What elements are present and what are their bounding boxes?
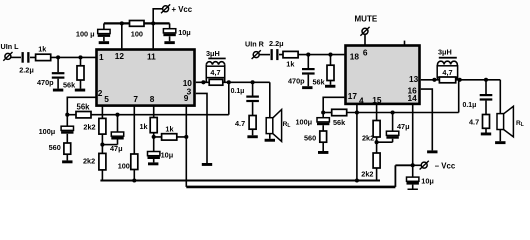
svg-text:7: 7 <box>133 94 138 104</box>
svg-text:14: 14 <box>408 93 418 103</box>
svg-text:17: 17 <box>348 91 358 101</box>
svg-text:1k: 1k <box>286 60 295 69</box>
svg-text:56k: 56k <box>63 81 76 90</box>
svg-text:4.7: 4.7 <box>235 119 245 128</box>
svg-text:8: 8 <box>150 94 155 104</box>
svg-text:1: 1 <box>99 52 104 62</box>
svg-text:100μ: 100μ <box>296 117 313 126</box>
svg-text:9: 9 <box>184 93 189 103</box>
svg-text:UIn R: UIn R <box>245 39 265 48</box>
svg-text:10μ: 10μ <box>178 28 191 37</box>
svg-text:560: 560 <box>49 143 61 152</box>
svg-text:2k2: 2k2 <box>362 133 374 142</box>
svg-text:10μ: 10μ <box>421 177 434 186</box>
svg-text:56k: 56k <box>313 77 326 86</box>
svg-text:+ Vcc: + Vcc <box>172 5 193 14</box>
svg-text:11: 11 <box>147 52 156 62</box>
svg-text:0.1μ: 0.1μ <box>231 88 245 95</box>
svg-text:4.7: 4.7 <box>469 118 479 127</box>
svg-text:1k: 1k <box>38 44 47 53</box>
svg-text:2.2μ: 2.2μ <box>19 66 34 75</box>
svg-text:12: 12 <box>115 51 125 61</box>
svg-text:56k: 56k <box>333 118 346 127</box>
svg-text:100: 100 <box>131 30 143 39</box>
svg-text:3μH: 3μH <box>438 47 452 56</box>
svg-text:6: 6 <box>363 48 368 58</box>
svg-text:47μ: 47μ <box>397 122 410 131</box>
svg-text:470p: 470p <box>288 76 305 85</box>
svg-text:100: 100 <box>118 161 130 170</box>
svg-text:15: 15 <box>372 95 382 105</box>
svg-text:RL: RL <box>516 120 524 128</box>
svg-text:2k2: 2k2 <box>83 157 95 166</box>
svg-text:0.1μ: 0.1μ <box>463 102 477 109</box>
svg-text:MUTE: MUTE <box>355 14 378 23</box>
svg-text:UIn L: UIn L <box>1 42 20 51</box>
svg-text:4,7: 4,7 <box>210 68 220 77</box>
svg-text:10μ: 10μ <box>161 150 174 159</box>
svg-text:4: 4 <box>359 95 364 105</box>
svg-text:5: 5 <box>104 94 109 104</box>
svg-text:100 μ: 100 μ <box>76 30 95 39</box>
svg-text:2k2: 2k2 <box>83 122 95 131</box>
svg-text:2: 2 <box>98 88 103 98</box>
svg-text:100μ: 100μ <box>39 127 56 136</box>
svg-text:18: 18 <box>350 51 360 61</box>
svg-text:RL: RL <box>283 121 291 129</box>
svg-text:2k2: 2k2 <box>361 170 373 179</box>
svg-text:3μH: 3μH <box>206 49 220 58</box>
svg-text:560: 560 <box>304 134 316 143</box>
svg-text:56k: 56k <box>77 102 91 111</box>
svg-text:1k: 1k <box>140 122 149 131</box>
svg-text:1k: 1k <box>165 124 174 133</box>
svg-text:470p: 470p <box>37 78 54 87</box>
svg-text:– Vcc: – Vcc <box>435 162 456 171</box>
svg-text:13: 13 <box>409 74 419 84</box>
svg-text:2.2μ: 2.2μ <box>269 39 284 48</box>
svg-text:4,7: 4,7 <box>442 68 452 77</box>
svg-text:47μ: 47μ <box>110 144 123 153</box>
